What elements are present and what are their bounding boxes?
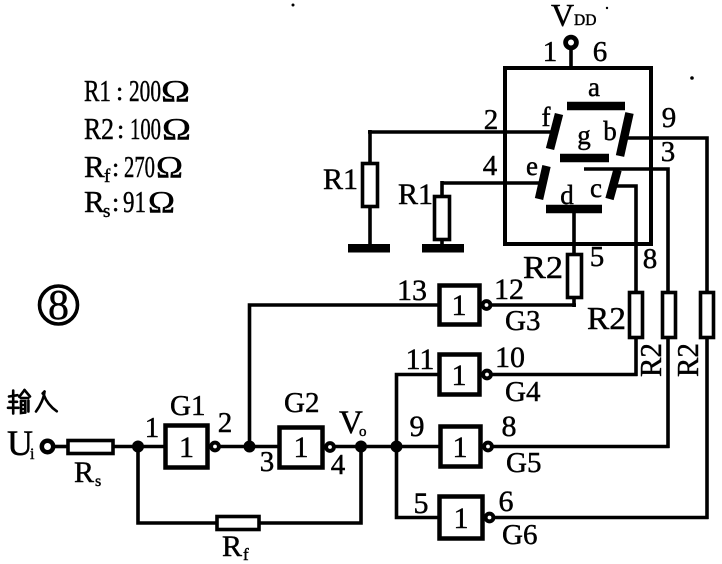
- wire G1 output to G2 input: [220, 445, 279, 449]
- wire pin9 from segment b right and down: [621, 138, 707, 294]
- svg-text:8: 8: [502, 410, 517, 443]
- svg-text:R: R: [84, 184, 105, 219]
- resistor R1 (second, pin4 to ground): [398, 178, 450, 246]
- svg-text:2: 2: [218, 407, 233, 439]
- segment f: [542, 102, 560, 149]
- value label Rf: 270 ohm: [84, 149, 183, 187]
- svg-text:1: 1: [145, 412, 160, 444]
- resistor Rs: [68, 441, 113, 491]
- svg-text:5: 5: [414, 487, 429, 520]
- svg-text:G5: G5: [506, 447, 541, 479]
- wire main input row: [54, 445, 68, 449]
- wire pin4 from segment e to R1: [441, 181, 543, 185]
- svg-text:G4: G4: [505, 376, 541, 408]
- svg-text:200: 200: [129, 73, 161, 108]
- svg-text:1: 1: [294, 431, 309, 464]
- input label (Chinese: shu-ru): [8, 390, 57, 414]
- wire G5 output to R2 tall #2: [493, 445, 670, 449]
- input node Ui: [7, 423, 35, 463]
- segment b: [603, 113, 629, 156]
- wire G3 input from node at G1 output: [250, 305, 440, 448]
- svg-text::: :: [112, 188, 119, 217]
- svg-text:f: f: [243, 545, 249, 564]
- wire pin5 from segment d down: [572, 211, 576, 256]
- svg-text:8: 8: [48, 283, 69, 329]
- svg-text:R: R: [84, 149, 105, 184]
- wire pin3 from segment g right and down: [584, 169, 668, 294]
- resistor R2 (pin5, vertical above G3 output): [523, 249, 582, 307]
- svg-text:V: V: [551, 0, 574, 33]
- svg-text:R: R: [222, 530, 242, 563]
- wire pin2 from segment f to R1: [368, 130, 553, 134]
- svg-text:DD: DD: [574, 12, 596, 29]
- svg-text:5: 5: [590, 241, 605, 273]
- resistor R2 (tall #2, pin3 to G5 output): [633, 293, 676, 449]
- svg-text:1: 1: [179, 431, 194, 464]
- input terminal circle: [42, 441, 53, 452]
- node Vo label: [339, 405, 367, 441]
- svg-text:R2: R2: [587, 300, 626, 336]
- svg-text:R2: R2: [633, 343, 668, 377]
- svg-text:4: 4: [331, 449, 346, 481]
- svg-text:R1: R1: [398, 178, 433, 211]
- gate G2 (inverter): [280, 387, 334, 468]
- svg-text:11: 11: [406, 343, 435, 376]
- wire G3 output to R2 (pin5): [491, 303, 576, 307]
- wire G6 input from node: [397, 445, 440, 518]
- svg-text:s: s: [95, 473, 101, 490]
- svg-text:G1: G1: [170, 390, 205, 422]
- value label R2: 100 ohm: [84, 111, 191, 146]
- svg-text:8: 8: [643, 243, 658, 275]
- node junction at G1 input: [132, 441, 144, 453]
- svg-text:10: 10: [495, 341, 525, 374]
- svg-text:s: s: [103, 201, 110, 222]
- wire feedback down from G1 input node: [138, 445, 217, 523]
- ground (first R1): [348, 244, 390, 253]
- svg-text:Ω: Ω: [148, 184, 175, 219]
- figure number 8 (circled): [40, 283, 78, 329]
- svg-text:G2: G2: [284, 387, 319, 419]
- resistor R2 (tall #1, pin8 to G4 output): [587, 293, 643, 377]
- svg-text:1: 1: [543, 36, 558, 68]
- resistor R2 (tall #3, pin9 to G6 output): [670, 293, 714, 520]
- value label Rs: 91 ohm: [84, 184, 175, 222]
- svg-text:R: R: [74, 456, 94, 489]
- svg-text:o: o: [359, 424, 367, 440]
- svg-text:3: 3: [661, 136, 676, 168]
- svg-text:6: 6: [593, 36, 608, 68]
- svg-text:270: 270: [124, 149, 155, 184]
- svg-text:G6: G6: [502, 519, 537, 551]
- wire Rf to Vo node: [259, 445, 361, 523]
- svg-text:1: 1: [454, 502, 469, 535]
- svg-text:Ω: Ω: [161, 73, 190, 108]
- gate G6 (inverter): [414, 485, 538, 551]
- svg-text:R2: R2: [670, 343, 705, 377]
- svg-text:c: c: [590, 173, 602, 203]
- segment a: [567, 72, 625, 106]
- scan speck dots: [292, 4, 295, 7]
- wire Rs to G1: [113, 445, 165, 449]
- svg-text:1: 1: [452, 289, 467, 322]
- svg-text::: :: [116, 77, 123, 106]
- wire G4 output to R2 tall #1: [492, 373, 638, 377]
- segment e: [526, 151, 546, 199]
- gate G5 (inverter): [410, 410, 542, 479]
- segment c: [590, 170, 617, 203]
- wire pin8 from segment c right and down: [615, 186, 636, 294]
- svg-text:g: g: [577, 120, 591, 150]
- svg-text:f: f: [104, 166, 111, 187]
- wire G4 input from node below: [397, 375, 440, 449]
- gate G4 (inverter): [406, 341, 541, 408]
- segment g: [560, 120, 609, 158]
- svg-text:1: 1: [453, 431, 468, 464]
- svg-text:i: i: [30, 446, 35, 463]
- resistor R1 (first, pin2 to ground): [323, 130, 378, 246]
- svg-text::: :: [112, 153, 119, 182]
- node junction at G1 output / G3 branch: [244, 441, 256, 453]
- svg-text:R2: R2: [523, 249, 563, 285]
- svg-text:12: 12: [494, 273, 524, 306]
- svg-text:G3: G3: [505, 305, 540, 337]
- svg-text:6: 6: [499, 485, 514, 518]
- svg-text:R1: R1: [84, 73, 111, 108]
- svg-text:Ω: Ω: [162, 111, 191, 146]
- svg-text:Ω: Ω: [156, 149, 183, 184]
- svg-text:a: a: [588, 72, 600, 102]
- svg-text:9: 9: [662, 102, 677, 134]
- wire G2 output to G5 input: [335, 445, 440, 449]
- svg-text:R2: R2: [84, 111, 114, 146]
- gate G1 (inverter): [166, 390, 219, 468]
- svg-text:R1: R1: [323, 163, 358, 196]
- svg-text:b: b: [603, 116, 617, 146]
- segment d: [546, 180, 602, 210]
- svg-text:4: 4: [483, 150, 498, 182]
- svg-text:1: 1: [452, 359, 467, 392]
- gate G3 (inverter): [397, 273, 540, 337]
- svg-text:9: 9: [410, 410, 425, 443]
- svg-text:3: 3: [260, 446, 275, 478]
- wire G6 output to R2 tall #3: [494, 516, 709, 520]
- value label R1: 200 ohm: [84, 73, 190, 108]
- svg-text:100: 100: [130, 111, 161, 146]
- resistor Rf: [217, 517, 259, 564]
- node junction G4/G6 branch: [391, 441, 403, 453]
- power VDD terminal: [551, 0, 596, 67]
- svg-text:91: 91: [123, 184, 146, 219]
- ground (second R1): [422, 244, 464, 253]
- svg-text::: :: [117, 115, 124, 144]
- svg-text:13: 13: [397, 274, 427, 307]
- display U1 package box: [505, 68, 651, 244]
- svg-text:e: e: [526, 151, 538, 181]
- node junction Vo: [355, 441, 367, 453]
- svg-text:f: f: [542, 102, 551, 132]
